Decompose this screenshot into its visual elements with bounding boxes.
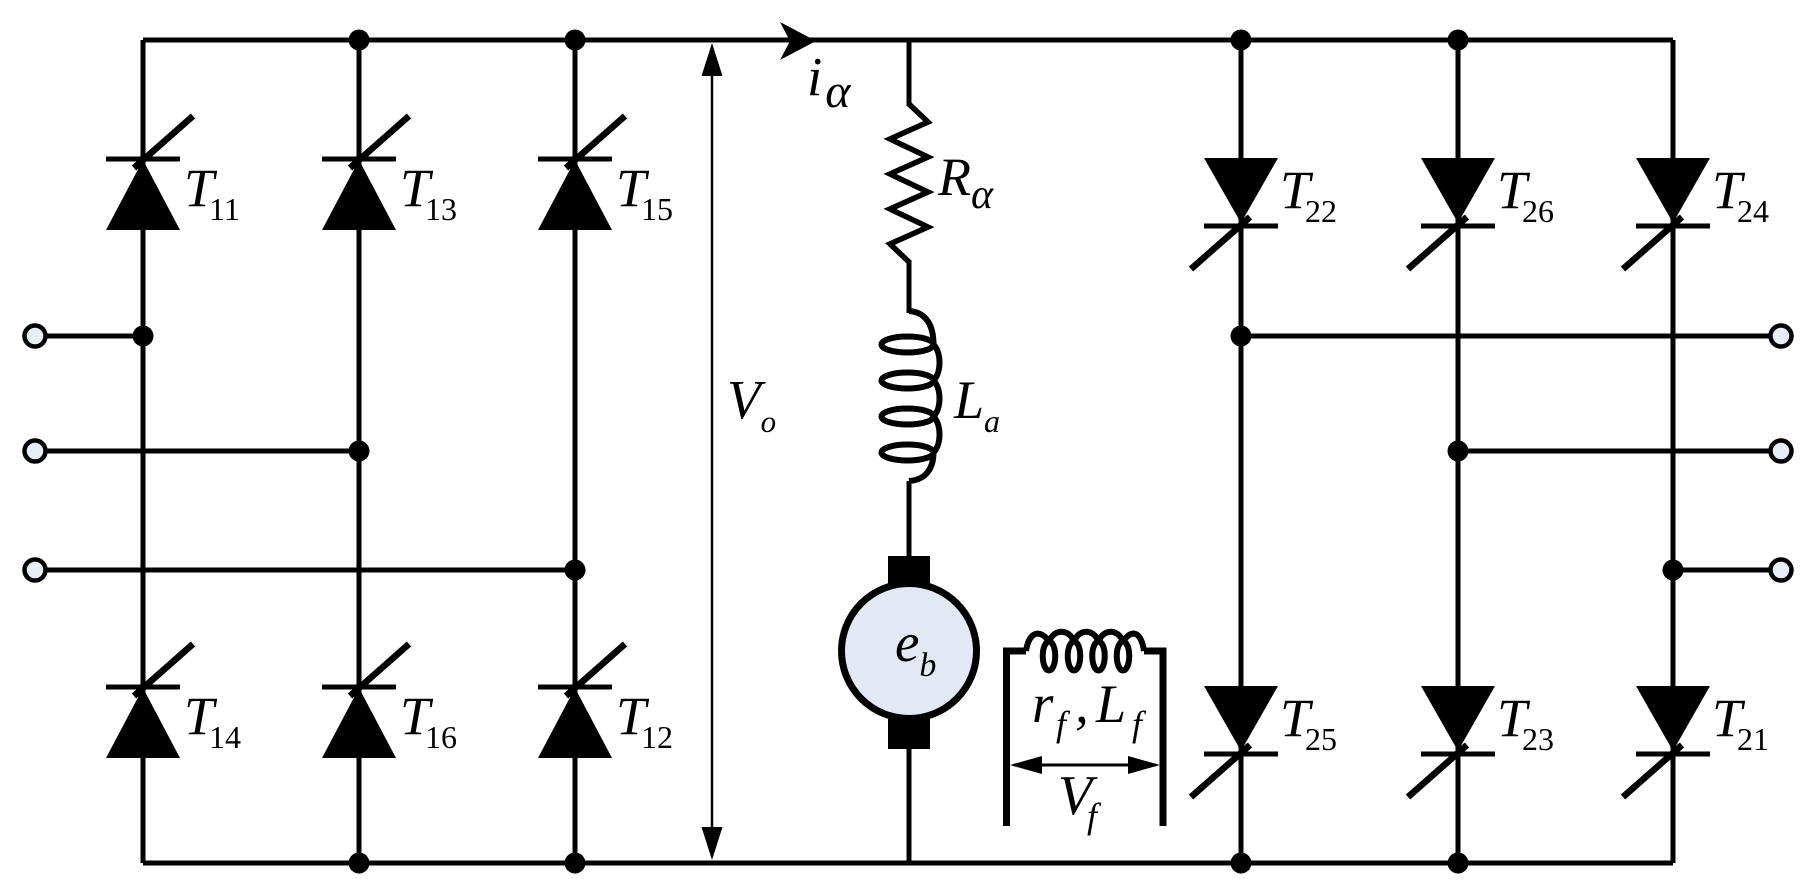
wire phase A output (1241, 334, 1781, 339)
wire column T15-T12 (573, 40, 578, 863)
junction top rail / T26 column (1448, 30, 1469, 51)
junction node output B (1448, 441, 1469, 462)
thyristor T13 (322, 116, 409, 230)
thyristor T16 (322, 644, 409, 758)
thyristor T21 (1623, 686, 1710, 797)
terminal input phase A (25, 326, 46, 347)
wire bottom rail (143, 861, 1673, 866)
junction top rail / T22 column (1231, 30, 1252, 51)
motor armature eb (842, 584, 977, 719)
terminal input phase C (25, 560, 46, 581)
wire right column T24-T21 (1671, 40, 1676, 863)
terminal input phase B (25, 441, 46, 462)
motor brush bottom (888, 719, 930, 749)
junction bottom rail / T16 column (349, 853, 370, 874)
Vf measurement arrow (1010, 756, 1160, 774)
wire phase B input (35, 449, 359, 454)
junction top rail / T13 column (349, 30, 370, 51)
junction node output C (1663, 560, 1684, 581)
thyristor T23 (1408, 686, 1495, 797)
wire column T22-T25 (1239, 40, 1244, 863)
wire armature top lead (907, 40, 912, 106)
field winding left lead (1007, 651, 1027, 826)
wire phase C input (35, 568, 575, 573)
inductor La (882, 311, 940, 481)
thyristor T26 (1408, 158, 1495, 269)
field inductor coil (1026, 632, 1144, 671)
terminal output phase A (1771, 326, 1792, 347)
wire column T13-T16 (357, 40, 362, 863)
current arrow ia (780, 22, 816, 60)
thyristor T14 (106, 644, 193, 758)
wire motor to bottom rail (907, 740, 912, 863)
svg-text:,: , (1075, 673, 1089, 734)
thyristor T11 (106, 116, 193, 230)
svg-text:L: L (1095, 674, 1126, 734)
junction node output A (1231, 326, 1252, 347)
svg-text:r: r (1032, 673, 1054, 734)
wire column T26-T23 (1456, 40, 1461, 863)
thyristor T22 (1191, 158, 1278, 269)
junction bottom rail / T25 column (1231, 853, 1252, 874)
junction node input C (565, 560, 586, 581)
thyristor T24 (1623, 158, 1710, 269)
thyristor T15 (538, 116, 625, 230)
resistor Ra (890, 104, 928, 262)
junction node input B (349, 441, 370, 462)
wire phase A input (35, 334, 143, 339)
thyristor T25 (1191, 686, 1278, 797)
terminal output phase B (1771, 441, 1792, 462)
junction bottom rail / T12 column (565, 853, 586, 874)
thyristor T12 (538, 644, 625, 758)
field winding right lead (1144, 651, 1163, 826)
wire left column T11-T14 (141, 40, 146, 863)
junction node input A (133, 326, 154, 347)
motor brush top (888, 556, 930, 586)
wire phase B output (1458, 449, 1781, 454)
junction top rail / T15 column (565, 30, 586, 51)
Vo measurement arrow (702, 43, 723, 860)
junction bottom rail / T23 column (1448, 853, 1469, 874)
wire top rail (143, 38, 1673, 43)
wire phase C output (1673, 568, 1781, 573)
terminal output phase C (1771, 560, 1792, 581)
wire resistor to inductor (907, 260, 912, 313)
wire inductor to motor (907, 481, 912, 566)
